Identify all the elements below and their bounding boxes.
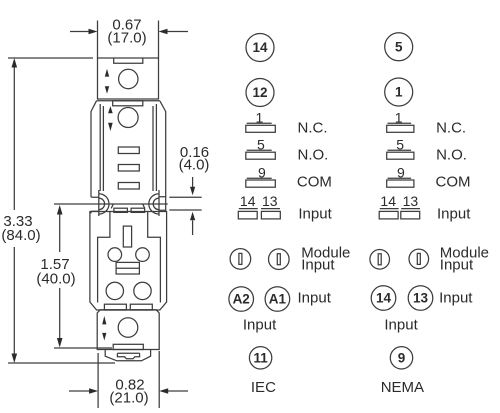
- NEMA input label centered: [384, 317, 418, 334]
- bottom block: [97, 310, 159, 350]
- IEC terminal 5 N.O.: [246, 136, 329, 163]
- waist right arc: [149, 190, 166, 216]
- NEMA terminals 14 13 Input: [379, 193, 471, 222]
- dimension 0.16 reference lines: [169, 197, 201, 210]
- top block screw circle: [119, 69, 138, 88]
- svg-text:N.C.: N.C.: [436, 120, 466, 137]
- lower section bottom tab left: [104, 304, 126, 310]
- lower section large circle left: [106, 282, 123, 299]
- dimension 0.16 down arrow: [190, 177, 195, 195]
- IEC label: [251, 379, 276, 396]
- middle block inner walls: [100, 104, 156, 191]
- NEMA terminal 14 circle: [371, 286, 396, 311]
- NEMA pin 9 circle: [390, 347, 412, 369]
- middle block slot 1: [118, 147, 139, 154]
- svg-text:5: 5: [395, 39, 403, 54]
- svg-text:Input: Input: [243, 317, 277, 334]
- NEMA module screw left: [370, 249, 390, 269]
- lower section inner outline left: [98, 212, 110, 303]
- svg-text:IEC: IEC: [251, 379, 276, 396]
- svg-text:Input: Input: [298, 290, 332, 307]
- IEC pin 12 circle: [246, 79, 274, 107]
- IEC pin 11 circle: [249, 347, 271, 369]
- NEMA module input label: [440, 244, 489, 273]
- svg-text:9: 9: [398, 350, 406, 365]
- IEC module input label: [301, 244, 350, 273]
- middle block slot 3: [118, 183, 139, 190]
- mounting foot outline: [105, 350, 150, 361]
- NEMA module screw right: [409, 249, 429, 269]
- bottom block up arrow: [102, 316, 106, 325]
- svg-text:NEMA: NEMA: [381, 379, 424, 396]
- svg-text:14: 14: [240, 193, 256, 209]
- lower section center slot: [123, 226, 131, 247]
- lower section outline: [90, 212, 167, 311]
- IEC terminal 1 N.C.: [246, 110, 328, 137]
- dimension 0.67 left arrow: [70, 29, 98, 35]
- dimension 0.82 right arrow: [159, 388, 188, 394]
- bottom block down arrow: [102, 333, 106, 341]
- lower section bottom tab right: [130, 304, 152, 310]
- lower section inner outline right: [148, 212, 161, 303]
- top block: [98, 58, 159, 99]
- waist left arc: [91, 190, 109, 216]
- NEMA pin 1 circle: [385, 78, 413, 106]
- svg-text:14: 14: [252, 40, 268, 55]
- svg-text:(4.0): (4.0): [179, 157, 210, 174]
- NEMA terminal 13 circle: [408, 286, 433, 311]
- IEC pin 14 circle: [246, 34, 274, 62]
- middle block up arrow: [108, 106, 113, 113]
- IEC terminals 14 13 Input: [238, 193, 332, 222]
- svg-text:1: 1: [395, 85, 403, 100]
- svg-text:(84.0): (84.0): [1, 227, 40, 244]
- svg-text:14: 14: [380, 193, 396, 209]
- dimension 0.82 extension lines: [98, 351, 159, 408]
- svg-text:A2: A2: [233, 292, 250, 307]
- top block tab: [114, 58, 143, 63]
- dimension 1.57 text: [36, 256, 75, 288]
- middle block down arrow: [108, 123, 113, 131]
- svg-text:13: 13: [262, 193, 278, 209]
- dimension 1.57 line and arrows: [57, 205, 63, 348]
- NEMA terminal 5 N.O.: [387, 136, 467, 163]
- middle block outline: [91, 101, 166, 212]
- NEMA pin 5 circle: [385, 33, 413, 61]
- svg-text:Input: Input: [384, 317, 418, 334]
- IEC input label: [298, 290, 332, 307]
- middle block slot 2: [118, 165, 139, 172]
- IEC input label centered: [243, 317, 277, 334]
- waist tab left: [111, 204, 127, 213]
- svg-text:12: 12: [252, 85, 267, 100]
- svg-text:N.C.: N.C.: [298, 120, 328, 137]
- IEC terminal A2 circle: [229, 287, 254, 312]
- dimension 0.16 text: [179, 144, 210, 174]
- svg-text:COM: COM: [297, 174, 332, 191]
- svg-text:14: 14: [376, 291, 392, 306]
- svg-text:A1: A1: [269, 292, 287, 307]
- middle block tab: [113, 101, 143, 106]
- NEMA terminal 9 COM: [387, 165, 471, 191]
- bottom block flange: [113, 344, 143, 349]
- svg-text:N.O.: N.O.: [298, 147, 329, 164]
- svg-text:N.O.: N.O.: [436, 147, 467, 164]
- dimension 3.33 extension lines: [8, 58, 115, 363]
- top block up arrow: [105, 69, 109, 77]
- IEC module screw right: [269, 249, 290, 270]
- dimension 3.33 text: [1, 213, 40, 244]
- NEMA input label: [439, 290, 473, 307]
- IEC module screw left: [230, 249, 251, 270]
- lower section large circle right: [134, 282, 151, 299]
- svg-text:13: 13: [413, 291, 429, 306]
- dimension 0.67 text: [107, 17, 146, 47]
- svg-text:(17.0): (17.0): [107, 30, 146, 47]
- NEMA label: [381, 379, 424, 396]
- dimension 0.16 up arrow: [190, 212, 195, 235]
- svg-text:Input: Input: [298, 206, 332, 223]
- mounting foot inner clip: [117, 353, 139, 359]
- lower section small circle right: [136, 248, 150, 262]
- svg-text:(21.0): (21.0): [109, 390, 148, 407]
- waist reference line: [54, 203, 168, 205]
- dimension 0.82 left arrow: [69, 388, 98, 394]
- svg-text:Input: Input: [439, 290, 473, 307]
- NEMA terminal 1 N.C.: [387, 110, 466, 137]
- waist tab right: [131, 204, 145, 213]
- svg-text:COM: COM: [436, 174, 471, 191]
- bottom block screw circle: [118, 318, 138, 338]
- lower section double rectangle: [116, 262, 139, 274]
- svg-text:13: 13: [403, 193, 419, 209]
- dimension 3.33 line and arrows: [12, 58, 18, 363]
- svg-text:11: 11: [253, 350, 268, 365]
- dimension 1.57 bottom extension line: [54, 347, 112, 349]
- IEC terminal A1 circle: [265, 287, 290, 312]
- IEC terminal 9 COM: [246, 165, 332, 191]
- svg-text:Input: Input: [301, 257, 335, 274]
- svg-text:Input: Input: [440, 257, 474, 274]
- lower section small circle left: [108, 248, 122, 262]
- dimension 0.67 right arrow: [159, 29, 189, 35]
- svg-text:Input: Input: [437, 206, 471, 223]
- middle block screw circle: [118, 108, 138, 128]
- dimension 0.82 text: [109, 377, 148, 407]
- dimension 0.67 extension lines: [98, 21, 159, 59]
- svg-text:(40.0): (40.0): [36, 271, 75, 288]
- top block down arrow: [105, 86, 109, 94]
